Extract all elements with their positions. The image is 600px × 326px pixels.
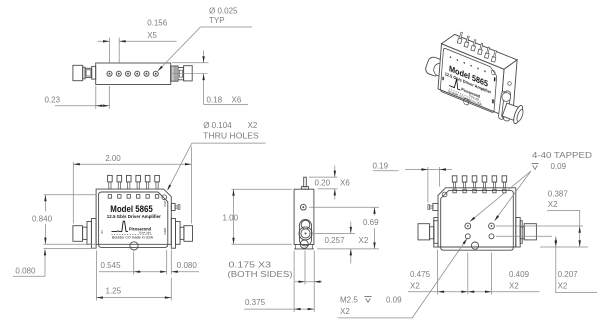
svg-text:TYP: TYP <box>209 16 225 25</box>
dim 0.257 lines <box>314 232 355 234</box>
dim 0.175 extension line slot center <box>304 251 306 285</box>
dim 0.19 extension lines <box>427 167 429 203</box>
svg-text:IN: IN <box>100 231 104 234</box>
svg-text:Boulder CO made in USA: Boulder CO made in USA <box>112 235 154 239</box>
svg-text:X2: X2 <box>410 282 420 291</box>
svg-text:0.19: 0.19 <box>373 162 389 171</box>
iso: right face <box>501 60 518 114</box>
svg-text:X2: X2 <box>248 121 258 130</box>
dim 2.00 line <box>73 163 191 165</box>
svg-text:0.545: 0.545 <box>101 261 122 270</box>
iso: right connector flange <box>498 90 511 120</box>
side view: flange upper screw circle <box>301 220 310 229</box>
svg-text:X2: X2 <box>340 307 350 316</box>
svg-text:0.20: 0.20 <box>315 178 331 187</box>
svg-text:THRU HOLES: THRU HOLES <box>203 132 259 141</box>
svg-text:X6: X6 <box>340 178 350 187</box>
top view: left connector pin box <box>85 68 92 77</box>
dim 0.840 vertical line <box>44 195 46 212</box>
iso: front label plate <box>440 48 497 116</box>
iso: corner hole <box>491 70 495 76</box>
front view: label plate <box>99 192 168 247</box>
back view: right SMA nut <box>524 224 536 240</box>
front view: right SMA nut <box>184 226 193 242</box>
side view: top pin <box>304 177 307 187</box>
svg-text:X2: X2 <box>359 236 369 245</box>
svg-text:1.00: 1.00 <box>223 213 239 222</box>
leader M2.5 to lower-left hole <box>338 317 413 319</box>
front view: left SMA nut <box>73 226 83 242</box>
svg-text:4-40 TAPPED: 4-40 TAPPED <box>532 151 592 160</box>
dim 0.23 extension lines <box>95 86 97 109</box>
dim 0.175 line <box>295 281 322 283</box>
svg-text:0.409: 0.409 <box>509 270 530 279</box>
front view: pulse logo waveform <box>112 221 129 231</box>
svg-text:(BOTH SIDES): (BOTH SIDES) <box>228 270 293 279</box>
depth symbol and 0.09 <box>532 164 539 170</box>
svg-text:0.18: 0.18 <box>207 95 223 104</box>
front view: left flange A <box>87 222 91 245</box>
extension line body bottom right <box>540 246 588 248</box>
front view: corner thru hole <box>162 195 167 200</box>
svg-text:OUT: OUT <box>163 200 167 207</box>
svg-text:12.5 Gb/s Driver Amplifier: 12.5 Gb/s Driver Amplifier <box>107 214 161 219</box>
svg-text:0.080: 0.080 <box>177 261 198 270</box>
top view: left connector step <box>83 67 85 79</box>
svg-text:X2: X2 <box>509 282 519 291</box>
svg-text:0.387: 0.387 <box>548 190 569 199</box>
dim 0.69 lines <box>309 206 379 208</box>
front view: 6 pins <box>108 175 113 198</box>
side view: connector circle inner <box>301 229 310 238</box>
bottom extension line side view <box>317 248 379 250</box>
top view: amplifier body <box>96 63 171 85</box>
front view: left barrel <box>83 227 87 239</box>
back view bottom extension lines <box>437 250 439 295</box>
svg-text:0.207: 0.207 <box>558 270 579 279</box>
bottom dim line back view <box>408 291 540 293</box>
leader dia 0.025 line <box>201 26 253 28</box>
iso: front face <box>438 44 504 115</box>
svg-text:0.69: 0.69 <box>363 218 379 227</box>
dim 0.080 right line <box>171 271 199 273</box>
leader 4-40 to upper-right hole <box>495 171 531 220</box>
front view: right flange B <box>171 219 175 249</box>
iso: pulse logo <box>449 76 461 90</box>
dim 1.25 line <box>96 297 171 299</box>
top view: right SMA nut <box>184 66 193 81</box>
svg-text:2.00: 2.00 <box>105 154 121 163</box>
dim 0.156 extension lines <box>109 38 111 63</box>
side view: bias pin circle <box>300 204 306 210</box>
dim 0.18 lines <box>172 62 209 64</box>
iso: right face bias pin <box>508 82 512 86</box>
dim 0.23 line and arrows <box>55 105 109 107</box>
back view: 6 pins <box>452 176 457 193</box>
top view: centerline through right connector <box>171 73 208 75</box>
svg-text:0.09: 0.09 <box>386 295 402 304</box>
top view: right knurl <box>171 66 178 81</box>
back view: plate <box>441 190 514 250</box>
svg-text:0.23: 0.23 <box>45 96 61 105</box>
dim 1.25 extension lines <box>95 251 97 301</box>
dim 0.080 right extension line <box>170 250 172 275</box>
dim 1.00 extension lines <box>232 188 293 190</box>
iso: left connector <box>424 56 449 80</box>
svg-text:X2: X2 <box>558 282 568 291</box>
side view: plate bottoms <box>294 248 314 250</box>
svg-text:Ø 0.104: Ø 0.104 <box>203 121 232 130</box>
dim 2.00 extension lines <box>72 162 74 224</box>
front view: bottom screw <box>130 242 138 250</box>
back view: right flange A <box>520 221 522 244</box>
svg-text:0.080: 0.080 <box>15 267 36 276</box>
svg-text:Ø 0.025: Ø 0.025 <box>209 7 238 16</box>
side view: connector flange obround <box>299 220 311 246</box>
svg-text:X6: X6 <box>232 95 242 104</box>
leader 4-40 to upper-left hole <box>471 171 531 221</box>
top view: 6 holes <box>107 71 112 76</box>
front view: body outline with chamfered top-right corner <box>96 189 171 244</box>
back view: left flange B <box>434 218 438 248</box>
svg-text:0.257: 0.257 <box>325 236 346 245</box>
back view: right flange B <box>516 218 520 248</box>
leader dia 0.104 lines <box>192 142 266 144</box>
svg-text:0.09: 0.09 <box>551 162 567 171</box>
iso: 6 pins <box>457 32 463 44</box>
dim 1.00 line <box>233 189 235 244</box>
iso: right connector barrel <box>501 101 525 125</box>
side view: bottom screw <box>300 240 308 248</box>
back view: left barrel <box>430 227 434 239</box>
dim 0.207 lines <box>496 235 552 237</box>
svg-text:X5: X5 <box>147 31 157 40</box>
back view: left SMA nut <box>418 224 430 240</box>
back view: M2.5 holes lower pair <box>465 234 470 239</box>
front view: dotted separator <box>112 233 152 235</box>
back view: corner thru hole <box>442 192 447 197</box>
svg-text:0.175 X3: 0.175 X3 <box>229 260 272 269</box>
dim 0.19 line <box>373 170 399 172</box>
side view: connector circle outer <box>299 227 312 240</box>
back view: bias pin left edge <box>433 203 438 210</box>
back view: left flange A <box>434 221 438 244</box>
back view: 4-40 tapped holes upper pair <box>465 223 471 229</box>
front view: right barrel <box>180 227 184 239</box>
svg-text:GND: GND <box>163 227 167 235</box>
iso: bottom screw bump <box>463 98 469 106</box>
isometric view <box>424 32 525 125</box>
svg-text:Model 5865: Model 5865 <box>110 204 153 214</box>
extension line upper holes <box>496 225 583 227</box>
back view: body outline with chamfered top-left corner <box>438 188 516 247</box>
dim 0.156 line and arrows <box>98 40 110 42</box>
svg-text:0.840: 0.840 <box>32 214 53 223</box>
dim 0.20 lines <box>309 176 338 178</box>
dim 0.840 extension lines <box>44 194 97 196</box>
dim 0.080 left leader <box>13 275 45 277</box>
top view: left connector flange <box>92 66 96 79</box>
front view: right flange A <box>176 222 181 245</box>
back view: right barrel <box>520 227 524 239</box>
iso: top face <box>442 34 518 69</box>
dim 0.375 extension lines <box>293 251 295 313</box>
svg-text:X2: X2 <box>548 200 558 209</box>
svg-text:0.375: 0.375 <box>245 298 266 307</box>
front view: bias pin right edge <box>171 203 175 210</box>
top view: left SMA nut <box>73 65 83 80</box>
dim 0.545 line <box>99 271 167 273</box>
back view: bottom screw <box>471 242 478 249</box>
side view: body <box>294 189 314 244</box>
dim 0.545 extension line screw center <box>133 252 135 275</box>
dim 0.375 line <box>244 308 314 310</box>
iso: pad dots row <box>450 56 452 58</box>
svg-text:0.156: 0.156 <box>147 19 168 28</box>
dim 0.387 lines <box>547 209 580 211</box>
front view: left flange B <box>91 219 96 249</box>
svg-text:1.25: 1.25 <box>106 286 122 295</box>
svg-text:0.475: 0.475 <box>410 270 431 279</box>
svg-text:M2.5: M2.5 <box>340 295 358 304</box>
top view: right connector mid section <box>178 68 184 80</box>
extension line plate bottom left <box>44 247 97 249</box>
